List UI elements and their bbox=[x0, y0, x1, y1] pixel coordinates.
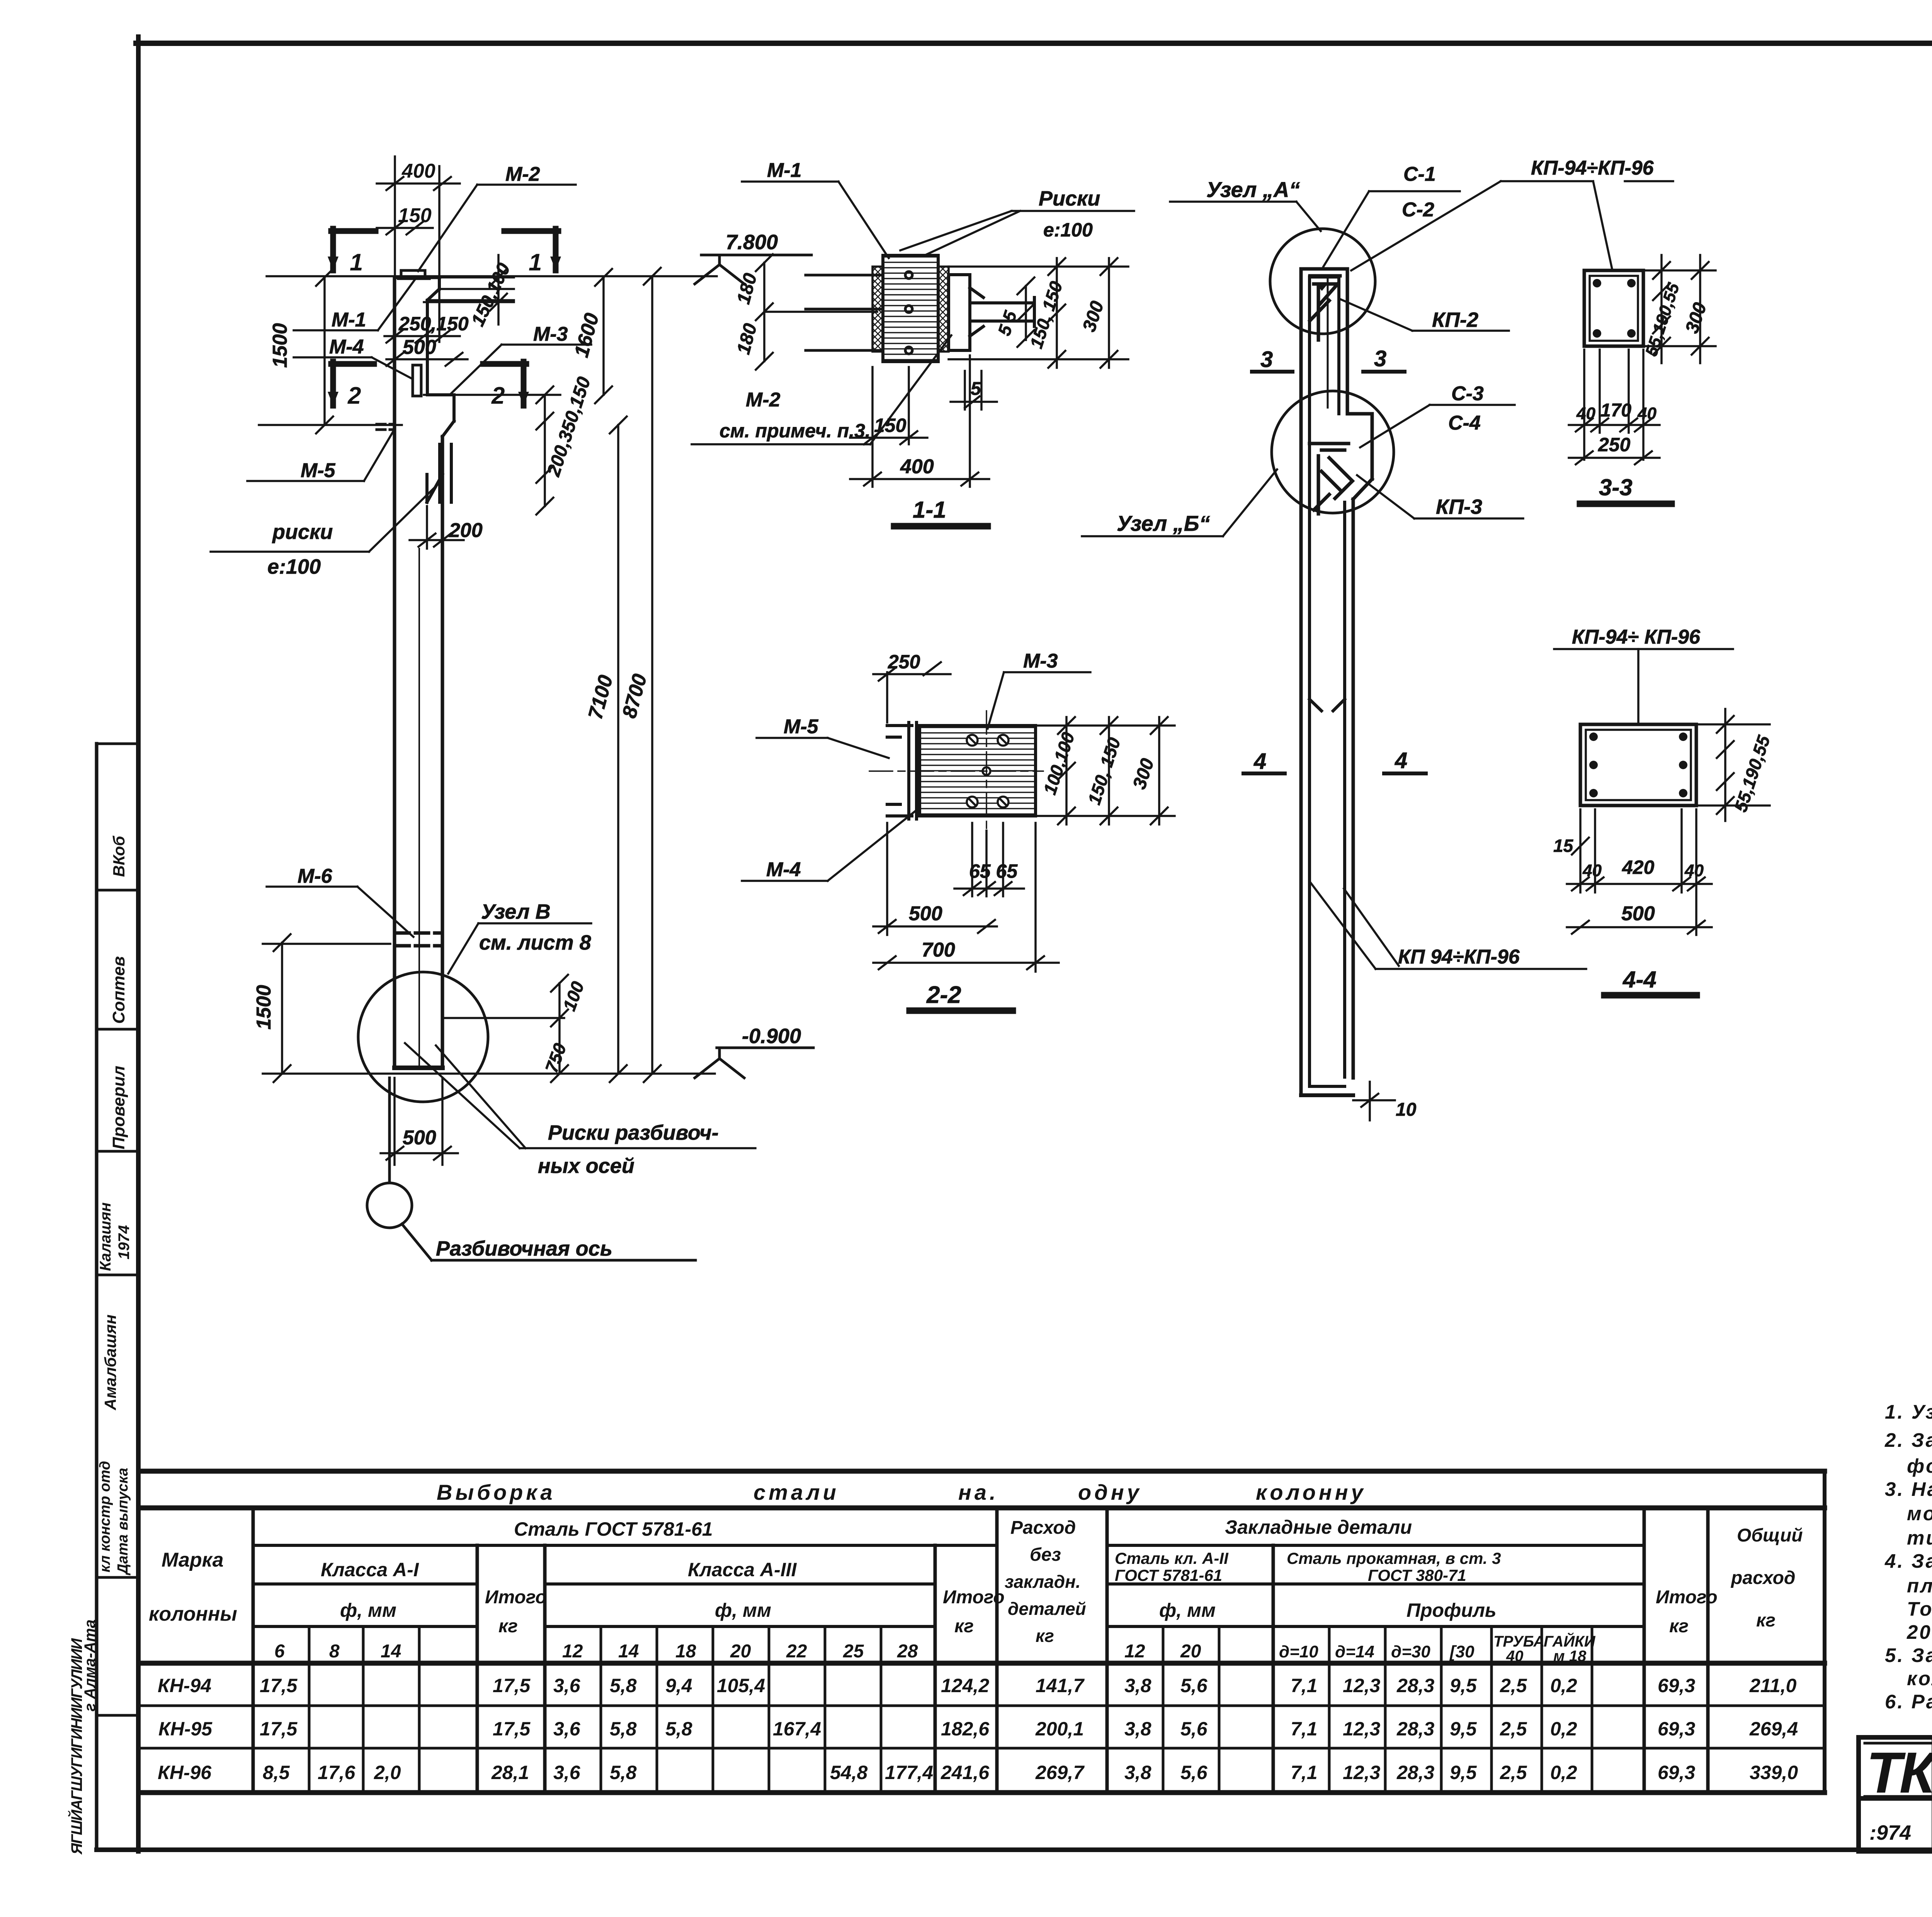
svg-text:5,8: 5,8 bbox=[610, 1718, 637, 1740]
svg-text:5,8: 5,8 bbox=[665, 1718, 692, 1740]
svg-text:кг: кг bbox=[1036, 1626, 1054, 1646]
svg-text:С-4: С-4 bbox=[1448, 412, 1481, 434]
svg-text:Итого: Итого bbox=[1656, 1587, 1718, 1608]
svg-text:Риски: Риски bbox=[1039, 187, 1100, 210]
svg-text:Узел „Б“: Узел „Б“ bbox=[1117, 511, 1210, 535]
svg-text:1: 1 bbox=[350, 249, 363, 276]
section 1-1 dims left (180,180) bbox=[756, 254, 877, 370]
svg-text:ГОСТ 380-71: ГОСТ 380-71 bbox=[1368, 1566, 1466, 1584]
2-2 dim 250 bbox=[873, 662, 951, 722]
level mark 7.800 bbox=[695, 255, 811, 284]
svg-text:177,4: 177,4 bbox=[885, 1762, 933, 1783]
left margin stamp column bbox=[97, 744, 138, 1850]
svg-text:105,4: 105,4 bbox=[717, 1675, 765, 1696]
svg-text:колонны из формы, их у: колонны из формы, их установку см. на ли… bbox=[1907, 1667, 1932, 1689]
4-4 dims 40 420 40 and 500 bbox=[1567, 809, 1712, 935]
svg-text:9,5: 9,5 bbox=[1450, 1675, 1477, 1696]
svg-text:269,4: 269,4 bbox=[1749, 1718, 1798, 1740]
svg-text:колонны: колонны bbox=[149, 1603, 237, 1625]
column chamfer marks mid-height bbox=[1310, 699, 1345, 711]
svg-text:211,0: 211,0 bbox=[1749, 1675, 1797, 1696]
svg-text:3,6: 3,6 bbox=[553, 1675, 581, 1696]
long dim "7100" bbox=[610, 416, 627, 1082]
label Uzel B bbox=[1082, 469, 1277, 536]
svg-text:2: 2 bbox=[347, 382, 361, 409]
svg-text:С-3: С-3 bbox=[1451, 382, 1484, 405]
svg-text:170: 170 bbox=[1600, 400, 1631, 421]
level mark -0.900 bbox=[695, 1048, 813, 1078]
svg-text:5,6: 5,6 bbox=[1180, 1762, 1208, 1783]
svg-text:М-5: М-5 bbox=[301, 459, 336, 482]
TK logo bbox=[1866, 1740, 1932, 1844]
svg-text:28,1: 28,1 bbox=[491, 1762, 529, 1783]
label riski e:100 with leader bbox=[211, 480, 442, 552]
svg-text:269,7: 269,7 bbox=[1035, 1762, 1085, 1783]
svg-text:2-2: 2-2 bbox=[926, 982, 961, 1008]
svg-text:3,8: 3,8 bbox=[1124, 1718, 1151, 1740]
svg-text:0,2: 0,2 bbox=[1550, 1718, 1577, 1740]
label M-1 with leader bbox=[294, 279, 415, 330]
svg-text:28,3: 28,3 bbox=[1396, 1675, 1435, 1696]
svg-text:3,6: 3,6 bbox=[553, 1762, 581, 1783]
svg-text:Толщина защитного слоя д: Толщина защитного слоя должна быть не ме… bbox=[1907, 1598, 1932, 1620]
label Uzel V sm list 8 bbox=[448, 923, 591, 974]
svg-text:см. лист 8: см. лист 8 bbox=[479, 931, 591, 954]
svg-text:ГОСТ 5781-61: ГОСТ 5781-61 bbox=[1115, 1566, 1222, 1584]
svg-text:54,8: 54,8 bbox=[830, 1762, 868, 1783]
svg-text:колонну: колонну bbox=[1256, 1480, 1366, 1504]
section marks 4 4 bbox=[1243, 772, 1426, 775]
2-2 dims 65 65 bbox=[954, 823, 1024, 896]
label M-3 with leader bbox=[451, 345, 591, 393]
svg-text:Амалбашян: Амалбашян bbox=[101, 1314, 119, 1411]
svg-text:e:100: e:100 bbox=[1043, 219, 1093, 241]
svg-text:КП-2: КП-2 bbox=[1432, 308, 1478, 331]
section marks 1-1 and 2-2 on elevation bbox=[331, 229, 558, 406]
section 1-1 dim 5 below bbox=[951, 371, 997, 410]
svg-text:20: 20 bbox=[1180, 1641, 1201, 1662]
long dim "8700" bbox=[644, 268, 661, 1082]
2-2 dim 500 bbox=[873, 823, 997, 935]
svg-text:3: 3 bbox=[1260, 347, 1273, 372]
svg-text:1-1: 1-1 bbox=[913, 497, 946, 523]
svg-text:250: 250 bbox=[1598, 434, 1631, 455]
dim "250,150" bbox=[384, 330, 460, 343]
svg-text:ф, мм: ф, мм bbox=[715, 1599, 771, 1621]
embedded plate M-2 on column top bbox=[398, 270, 430, 279]
dim "200" below step bbox=[410, 479, 464, 549]
uzel B joint detail bbox=[1310, 444, 1352, 514]
svg-text:ф, мм: ф, мм bbox=[340, 1599, 396, 1621]
svg-text:14: 14 bbox=[381, 1641, 401, 1662]
svg-text:141,7: 141,7 bbox=[1036, 1675, 1085, 1696]
dim "200,350,150" right of console rotated bbox=[536, 386, 553, 515]
svg-text:28,3: 28,3 bbox=[1396, 1718, 1435, 1740]
dim "750,100" lower right rotated bbox=[444, 975, 568, 1082]
svg-text:7.800: 7.800 bbox=[726, 231, 778, 254]
svg-text:12: 12 bbox=[562, 1641, 583, 1662]
label M-4 with leader bbox=[294, 357, 412, 379]
svg-text:М-6: М-6 bbox=[298, 865, 333, 887]
svg-text:М-1: М-1 bbox=[332, 309, 366, 331]
svg-text:22: 22 bbox=[786, 1641, 807, 1662]
razbivochnaya os circle and axis bbox=[367, 1078, 696, 1260]
svg-text:[30: [30 bbox=[1449, 1642, 1475, 1661]
section 1-1 dims right: 5,5 ; 150,150 ; 300 bbox=[949, 258, 1128, 368]
svg-text:Калашян: Калашян bbox=[97, 1202, 114, 1271]
svg-text:м 18: м 18 bbox=[1553, 1648, 1587, 1665]
section marks 3 3 bbox=[1252, 370, 1405, 374]
4-4 dim 15 left bbox=[1572, 809, 1589, 892]
svg-text:деталей: деталей bbox=[1008, 1599, 1086, 1619]
svg-text:182,6: 182,6 bbox=[941, 1718, 990, 1740]
svg-text:кг: кг bbox=[954, 1616, 974, 1637]
svg-text:150: 150 bbox=[398, 204, 432, 227]
svg-text:кл констр отд: кл констр отд bbox=[97, 1461, 113, 1572]
svg-text:4-4: 4-4 bbox=[1622, 967, 1656, 992]
label KP-2 bbox=[1341, 299, 1509, 331]
svg-text:Итого: Итого bbox=[943, 1587, 1005, 1608]
svg-text:2,5: 2,5 bbox=[1500, 1718, 1527, 1740]
svg-text:500: 500 bbox=[403, 336, 436, 359]
svg-text:на.: на. bbox=[958, 1480, 999, 1504]
svg-text:65 65: 65 65 bbox=[969, 860, 1018, 882]
svg-text:КН-95: КН-95 bbox=[158, 1718, 213, 1740]
embedded plate M-4 on column face bbox=[413, 365, 421, 396]
svg-text:69,3: 69,3 bbox=[1658, 1762, 1696, 1783]
svg-text:КН-94: КН-94 bbox=[158, 1675, 211, 1696]
svg-text:стали: стали bbox=[753, 1480, 839, 1504]
svg-text:124,2: 124,2 bbox=[941, 1675, 989, 1696]
label 2-2 bbox=[908, 1009, 1014, 1012]
svg-text:69,3: 69,3 bbox=[1658, 1675, 1696, 1696]
riski marks on console bbox=[427, 444, 451, 502]
label M-3 for 2-2 bbox=[988, 672, 1090, 729]
svg-text:М-2: М-2 bbox=[746, 389, 781, 411]
svg-text:10: 10 bbox=[1396, 1100, 1417, 1120]
uzel V dashed marks bbox=[396, 933, 441, 946]
svg-text:4: 4 bbox=[1253, 749, 1266, 774]
label riski razbivochnykh osey with leaders bbox=[405, 1043, 755, 1148]
svg-text:25: 25 bbox=[843, 1641, 864, 1662]
svg-text:40: 40 bbox=[1576, 404, 1595, 423]
svg-text:1. Узлы А и Б см. на листах: 1. Узлы А и Б см. на листах 41; 42 серии… bbox=[1885, 1401, 1932, 1423]
svg-text::974: :974 bbox=[1869, 1821, 1911, 1844]
svg-text:Риски разбивоч-: Риски разбивоч- bbox=[548, 1121, 719, 1144]
svg-text:5: 5 bbox=[971, 379, 981, 399]
svg-text:500: 500 bbox=[403, 1127, 436, 1149]
KP-94 KP-96 label above 4-4 bbox=[1554, 649, 1733, 723]
label KP-3 bbox=[1357, 475, 1523, 518]
svg-text:кг: кг bbox=[498, 1616, 518, 1637]
svg-text:5,8: 5,8 bbox=[610, 1675, 637, 1696]
uzel V circle bbox=[358, 972, 488, 1102]
svg-text:Профиль: Профиль bbox=[1406, 1599, 1497, 1621]
svg-text:С-2: С-2 bbox=[1402, 199, 1434, 221]
svg-text:0,2: 0,2 bbox=[1550, 1762, 1577, 1783]
label C-1/C-2 bbox=[1323, 191, 1460, 267]
label M-6 with leader bbox=[267, 887, 413, 937]
vyborka table texts bbox=[149, 1480, 1803, 1783]
svg-text:17,5: 17,5 bbox=[493, 1675, 531, 1696]
uzel B circle bbox=[1272, 391, 1394, 513]
dimension chain "400" and "150" at column top bbox=[377, 156, 514, 342]
dim "500" console bbox=[386, 353, 468, 366]
anchor bars left bbox=[806, 272, 912, 354]
svg-text:М-5: М-5 bbox=[784, 715, 819, 738]
svg-text:40: 40 bbox=[1506, 1648, 1524, 1665]
label 4-4 bbox=[1603, 994, 1698, 997]
svg-text:500: 500 bbox=[1621, 902, 1655, 925]
dim "1600" bbox=[595, 269, 612, 403]
svg-text:1500: 1500 bbox=[253, 985, 275, 1030]
svg-text:40: 40 bbox=[1637, 404, 1656, 423]
svg-text:ных осей: ных осей bbox=[538, 1154, 634, 1178]
M-5 channel embed bbox=[887, 722, 917, 819]
svg-text:без: без bbox=[1030, 1545, 1061, 1565]
2-2 main hatched block bbox=[920, 726, 1036, 816]
uzel A circle bbox=[1270, 229, 1375, 334]
svg-text:д=30: д=30 bbox=[1391, 1642, 1430, 1661]
svg-text:монтажом колонны. Сварку: монтажом колонны. Сварку производить эле… bbox=[1907, 1502, 1932, 1524]
svg-text:КП-94÷КП-96: КП-94÷КП-96 bbox=[1531, 157, 1654, 179]
svg-text:формы.: формы. bbox=[1907, 1455, 1932, 1477]
svg-text:1500: 1500 bbox=[269, 323, 291, 368]
svg-text:Узел „А“: Узел „А“ bbox=[1206, 177, 1300, 202]
svg-text:40: 40 bbox=[1582, 861, 1602, 880]
svg-text:3,8: 3,8 bbox=[1124, 1675, 1151, 1696]
svg-text:М-1: М-1 bbox=[767, 159, 802, 182]
svg-text:2,0: 2,0 bbox=[374, 1762, 401, 1783]
label Uzel A bbox=[1170, 202, 1321, 231]
svg-text:КП 94÷КП-96: КП 94÷КП-96 bbox=[1398, 946, 1520, 968]
svg-text:6. Расход стали дан без: 6. Расход стали дан без учета отходов пр… bbox=[1885, 1691, 1932, 1713]
svg-text:7,1: 7,1 bbox=[1291, 1762, 1318, 1783]
svg-text:500: 500 bbox=[909, 902, 942, 925]
stamp signatures (rotated text) bbox=[67, 836, 133, 1855]
label KP 94 - KP-96 lower with leaders bbox=[1311, 883, 1586, 969]
svg-text:2: 2 bbox=[491, 382, 505, 409]
svg-text:Соптев: Соптев bbox=[109, 956, 128, 1024]
svg-text:12: 12 bbox=[1124, 1641, 1145, 1662]
svg-text:КП-3: КП-3 bbox=[1436, 495, 1482, 518]
svg-text:12,3: 12,3 bbox=[1343, 1718, 1381, 1740]
3-3 dims right: 55,190,55 and 300 bbox=[1643, 255, 1716, 363]
svg-text:400: 400 bbox=[900, 455, 934, 478]
svg-text:18: 18 bbox=[675, 1641, 696, 1662]
svg-text:М-3: М-3 bbox=[533, 323, 568, 345]
svg-text:закладн.: закладн. bbox=[1005, 1572, 1081, 1592]
svg-text:0,2: 0,2 bbox=[1550, 1675, 1577, 1696]
svg-text:69,3: 69,3 bbox=[1658, 1718, 1696, 1740]
svg-text:7,1: 7,1 bbox=[1291, 1718, 1318, 1740]
svg-text:Общий: Общий bbox=[1737, 1525, 1803, 1546]
svg-text:3: 3 bbox=[1374, 346, 1386, 371]
dim "500" below column bottom bbox=[381, 1078, 458, 1165]
svg-text:250,150: 250,150 bbox=[398, 313, 469, 335]
dim "1500" lower left bbox=[263, 934, 390, 1082]
label C-3/C-4 bbox=[1360, 405, 1515, 447]
svg-text:Класса А-III: Класса А-III bbox=[688, 1559, 797, 1581]
svg-text:14: 14 bbox=[618, 1641, 639, 1662]
svg-text:4: 4 bbox=[1395, 748, 1407, 773]
svg-text:М-4: М-4 bbox=[766, 858, 801, 881]
section 1-1 dim 150 and 400 bbox=[850, 355, 989, 487]
svg-text:Разбивочная ось: Разбивочная ось bbox=[436, 1237, 612, 1260]
svg-text:9,4: 9,4 bbox=[665, 1675, 692, 1696]
svg-text:20мм. (считая от поперечной: 20мм. (считая от поперечной арматуры). bbox=[1906, 1621, 1932, 1643]
svg-text:ВКоб: ВКоб bbox=[110, 836, 128, 877]
svg-text:250: 250 bbox=[888, 651, 920, 673]
svg-text:9,5: 9,5 bbox=[1450, 1762, 1477, 1783]
bottom dim 10 bbox=[1353, 1082, 1395, 1120]
svg-text:Узел В: Узел В bbox=[481, 900, 551, 923]
label M-5 with leader bbox=[247, 431, 393, 481]
svg-text:28: 28 bbox=[897, 1641, 918, 1662]
3-3 dims bottom: 40 170 40 and 250 bbox=[1569, 350, 1660, 464]
svg-text:Расход: Расход bbox=[1010, 1518, 1076, 1538]
svg-text:М-3: М-3 bbox=[1023, 650, 1058, 672]
svg-text:4. Защитные слои бетона,: 4. Защитные слои бетона, должны обеспечи… bbox=[1884, 1550, 1932, 1572]
svg-text:Итого: Итого bbox=[485, 1587, 547, 1608]
svg-text:М-2: М-2 bbox=[505, 163, 540, 185]
label Riski e:100 for section 1-1 bbox=[900, 211, 1134, 255]
svg-text:5,6: 5,6 bbox=[1180, 1718, 1208, 1740]
svg-text:Сталь кл. А-II: Сталь кл. А-II bbox=[1115, 1549, 1229, 1567]
svg-text:риски: риски bbox=[272, 520, 333, 544]
svg-text:167,4: 167,4 bbox=[773, 1718, 821, 1740]
svg-text:типа Э42 ГОСТ 9467-60;: типа Э42 ГОСТ 9467-60; hш = 8 мм bbox=[1907, 1527, 1932, 1549]
dim "1500" upper left bbox=[316, 269, 333, 433]
column outline bbox=[395, 277, 454, 1068]
svg-text:КН-96: КН-96 bbox=[158, 1762, 212, 1783]
svg-text:5. Закладные детали м-5 и: 5. Закладные детали м-5 и м-6 служат для… bbox=[1885, 1644, 1932, 1666]
svg-text:-0.900: -0.900 bbox=[742, 1025, 801, 1048]
svg-text:ЯГШЙАГШУГИГИНИИГУЛИИИ: ЯГШЙАГШУГИГИНИИГУЛИИИ bbox=[67, 1638, 85, 1855]
svg-text:12,3: 12,3 bbox=[1343, 1762, 1381, 1783]
svg-text:200: 200 bbox=[449, 519, 483, 542]
2-2 dim 700 bbox=[873, 823, 1059, 972]
svg-text:2,5: 2,5 bbox=[1500, 1675, 1527, 1696]
svg-text:20: 20 bbox=[730, 1641, 751, 1662]
svg-text:17,5: 17,5 bbox=[493, 1718, 531, 1740]
svg-text:расход: расход bbox=[1730, 1568, 1796, 1588]
svg-text:ГАЙКИ: ГАЙКИ bbox=[1544, 1632, 1596, 1650]
svg-text:Проверил: Проверил bbox=[109, 1066, 128, 1149]
svg-text:17,6: 17,6 bbox=[318, 1762, 356, 1783]
svg-text:12,3: 12,3 bbox=[1343, 1675, 1381, 1696]
svg-text:8: 8 bbox=[329, 1641, 340, 1662]
svg-text:кг: кг bbox=[1669, 1616, 1689, 1637]
svg-text:ф, мм: ф, мм bbox=[1159, 1599, 1216, 1621]
svg-text:пластмассовыми или бетонны: пластмассовыми или бетонными фиксаторами… bbox=[1907, 1575, 1932, 1597]
svg-text:339,0: 339,0 bbox=[1750, 1762, 1798, 1783]
svg-text:5,8: 5,8 bbox=[610, 1762, 637, 1783]
svg-text:Дата выпуска: Дата выпуска bbox=[115, 1468, 131, 1575]
svg-text:e:100: e:100 bbox=[267, 555, 321, 578]
svg-text:Сталь прокатная, в ст. 3: Сталь прокатная, в ст. 3 bbox=[1287, 1549, 1501, 1567]
datum line bottom (-0.900 level) bbox=[263, 1072, 715, 1075]
svg-text:1974: 1974 bbox=[116, 1225, 133, 1259]
svg-text:М-4: М-4 bbox=[329, 336, 364, 358]
svg-text:17,5: 17,5 bbox=[260, 1675, 298, 1696]
dim "150,100" upper right rotated bbox=[424, 255, 514, 325]
M-1 anchor plate (hatched) bbox=[872, 255, 949, 362]
label M-2 with leader bbox=[418, 185, 576, 271]
svg-text:Сталь ГОСТ 5781-61: Сталь ГОСТ 5781-61 bbox=[514, 1518, 713, 1540]
label M-1 for section 1-1 with long leader bbox=[742, 182, 889, 258]
svg-text:17,5: 17,5 bbox=[260, 1718, 298, 1740]
svg-text:8,5: 8,5 bbox=[263, 1762, 290, 1783]
uzel A joint detail bbox=[1310, 276, 1340, 408]
svg-text:400: 400 bbox=[401, 160, 435, 182]
svg-text:3-3: 3-3 bbox=[1599, 474, 1633, 500]
column axis line bbox=[418, 549, 420, 1068]
svg-text:С-1: С-1 bbox=[1403, 163, 1436, 185]
dim line at console level bbox=[259, 424, 402, 426]
svg-text:д=14: д=14 bbox=[1335, 1642, 1374, 1661]
svg-text:40: 40 bbox=[1684, 861, 1704, 880]
2-2 right dims 100,100 150,150 300 bbox=[1036, 717, 1175, 824]
label KP-94 KP-96 top with leaders bbox=[1351, 181, 1673, 270]
label 3-3 bbox=[1578, 502, 1673, 505]
label M-4 for 2-2 bbox=[742, 811, 915, 881]
embedded plate M-5 mark at lower step bbox=[377, 424, 395, 430]
svg-text:Марка: Марка bbox=[162, 1549, 224, 1571]
centerlines 2-2 bbox=[869, 711, 1043, 831]
svg-text:Выборка: Выборка bbox=[437, 1480, 556, 1504]
svg-text:15: 15 bbox=[1553, 836, 1574, 856]
label M-2 sm primech p3 bbox=[692, 335, 951, 444]
svg-text:200,1: 200,1 bbox=[1035, 1718, 1084, 1740]
svg-text:7,1: 7,1 bbox=[1291, 1675, 1318, 1696]
label 1-1 bbox=[893, 525, 989, 528]
svg-text:700: 700 bbox=[922, 939, 955, 961]
label M-5 for 2-2 bbox=[757, 738, 889, 758]
4-4 dims right 55,190,55 bbox=[1696, 709, 1770, 821]
rebar circles in 2-2 bbox=[967, 735, 1009, 807]
svg-text:д=10: д=10 bbox=[1279, 1642, 1318, 1661]
svg-text:3,8: 3,8 bbox=[1124, 1762, 1151, 1783]
svg-text:3,6: 3,6 bbox=[553, 1718, 581, 1740]
svg-text:9,5: 9,5 bbox=[1450, 1718, 1477, 1740]
svg-text:2. Закладные детали м-1,: 2. Закладные детали м-1, м-3 и м-4 крепя… bbox=[1884, 1429, 1932, 1451]
svg-text:28,3: 28,3 bbox=[1396, 1762, 1435, 1783]
svg-text:Класса А-I: Класса А-I bbox=[321, 1559, 419, 1581]
M-2 plate and tee bbox=[949, 275, 1034, 350]
datum line top (7.800 level) bbox=[267, 275, 717, 277]
svg-text:2,5: 2,5 bbox=[1500, 1762, 1527, 1783]
svg-text:кг: кг bbox=[1756, 1610, 1776, 1631]
svg-text:3. Накладную деталь м-2 п: 3. Накладную деталь м-2 приварить к М-1 … bbox=[1885, 1478, 1932, 1500]
svg-text:КП-94÷ КП-96: КП-94÷ КП-96 bbox=[1572, 626, 1701, 648]
svg-text:см. примеч. п.3.: см. примеч. п.3. bbox=[719, 420, 871, 442]
svg-text:420: 420 bbox=[1622, 857, 1655, 878]
svg-text:5,6: 5,6 bbox=[1180, 1675, 1208, 1696]
svg-text:одну: одну bbox=[1078, 1480, 1142, 1504]
svg-text:241,6: 241,6 bbox=[940, 1762, 990, 1783]
svg-text:1: 1 bbox=[529, 249, 542, 276]
svg-text:6: 6 bbox=[274, 1641, 285, 1662]
svg-text:Закладные детали: Закладные детали bbox=[1225, 1516, 1412, 1538]
